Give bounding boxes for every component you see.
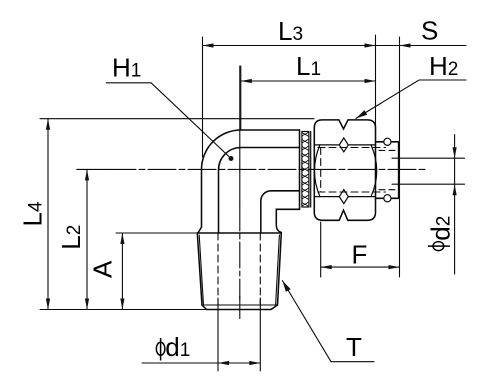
- S arrow: [400, 43, 411, 47]
- nut chamfer barrel arc right: [371, 145, 377, 197]
- leader H1: [106, 83, 231, 159]
- washer inner edge: [310, 132, 312, 208]
- body end face at washer: [299, 130, 301, 209]
- L2 arrow bottom: [85, 299, 89, 310]
- elbow body inner arc and second line: [219, 148, 300, 171]
- nut diamond top: [339, 138, 348, 152]
- phi-d1 extension line right: [259, 298, 261, 371]
- L4 arrow bottom: [46, 299, 50, 310]
- L4 arrow top: [46, 119, 50, 130]
- L3 arrow left: [203, 43, 214, 47]
- L1 arrow right: [365, 79, 376, 83]
- L3/L1 extension line right: [375, 35, 377, 131]
- hidden tube bore dashed top: [379, 149, 396, 151]
- leader T: [282, 281, 374, 362]
- L2 arrow top: [85, 169, 89, 180]
- S extension line / tube end: [399, 37, 401, 277]
- phi-d2 extension line bottom: [392, 183, 465, 185]
- svg-text:S: S: [421, 15, 438, 45]
- hidden tube bore dashed bottom: [379, 189, 396, 191]
- phi-d2 extension line top: [392, 157, 465, 159]
- thread taper outline: [197, 233, 281, 310]
- leader H2: [356, 80, 466, 118]
- L1 arrow left: [241, 79, 252, 83]
- body left edge: [197, 170, 201, 235]
- phi-d2 dimension line: [454, 135, 456, 275]
- hidden bore dashed bottom: [318, 191, 386, 193]
- leader H2 arrow: [356, 110, 367, 118]
- thread root dashed left: [217, 233, 219, 305]
- label phi-d2: [428, 242, 450, 251]
- leader T arrow: [282, 281, 290, 292]
- centerline horizontal (port axis): [77, 168, 108, 170]
- thread crest second lines: [199, 235, 279, 305]
- extension line shoulder (A): [116, 232, 197, 234]
- extension line bottom (L4 L2 A): [40, 309, 271, 311]
- tube barb circle bottom: [384, 195, 391, 202]
- dimension L2 line: [86, 169, 88, 309]
- thread chamfer line: [202, 304, 278, 306]
- tube barb circle top: [384, 138, 391, 145]
- dimension A line: [121, 233, 123, 310]
- shoulder top line: [197, 232, 281, 234]
- svg-text:T: T: [346, 332, 362, 362]
- body inner right vertical: [260, 201, 262, 233]
- F arrow left: [321, 265, 332, 269]
- washer outline: [302, 132, 309, 208]
- F arrow right: [389, 265, 400, 269]
- L3 extension line left: [202, 37, 204, 157]
- A arrow top: [120, 233, 124, 244]
- phi-d1 extension line left: [217, 298, 219, 371]
- thread root dashed right: [259, 233, 261, 305]
- A arrow bottom: [120, 299, 124, 310]
- L3 arrow right: [365, 43, 376, 47]
- dimension L4 line: [47, 119, 49, 310]
- extension line nut top (L4): [40, 118, 314, 120]
- nut chamfer barrel arc left: [315, 145, 320, 197]
- hidden bore dashed top: [318, 147, 386, 149]
- svg-text:A: A: [88, 260, 118, 278]
- tube stub outline: [376, 142, 399, 199]
- label phi-d1: [156, 338, 165, 361]
- centerline vertical (leg axis): [239, 66, 241, 205]
- dimension F line: [321, 266, 400, 268]
- hidden hole vertical dashed: [320, 148, 322, 193]
- body inner left vertical: [218, 170, 220, 233]
- svg-text:F: F: [352, 239, 368, 269]
- nut flat boundary top: [314, 144, 375, 146]
- elbow body outer arc and top line: [202, 130, 300, 170]
- dimension L3 line: [203, 45, 467, 47]
- nut diamond bottom: [339, 190, 348, 204]
- body bottom step line: [276, 209, 299, 232]
- phi-d1 arrow left: [218, 361, 229, 365]
- nut H2 outline: [314, 120, 375, 220]
- dimension L1 line: [241, 80, 376, 82]
- leader H1 dot: [229, 156, 234, 161]
- washer hatch: [302, 132, 309, 207]
- phi-d2 arrow bottom: [453, 184, 457, 195]
- phi-d1 dimension line: [142, 362, 260, 364]
- phi-d2 arrow top: [453, 147, 457, 158]
- body inner step fillet and line: [261, 191, 300, 201]
- F extension line left: [320, 222, 322, 277]
- nut flat boundary bottom: [314, 196, 375, 198]
- L1 extension line: [240, 66, 242, 130]
- phi-d1 arrow right: [249, 361, 260, 365]
